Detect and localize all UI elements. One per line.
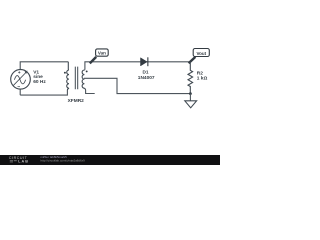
wire: left loop (source to primary) [20,62,68,95]
transformer XFMR2 core [75,67,77,90]
flag Vout box [193,49,209,57]
transformer XFMR2 secondary coil [82,69,85,90]
transformer XFMR2 primary coil [67,62,69,90]
wire: secondary top rail to resistor [85,62,190,70]
svg-text:D1: D1 [143,70,149,75]
svg-text:1N4007: 1N4007 [138,75,155,81]
voltage source V1 circle [11,70,31,90]
svg-text:XFMR2: XFMR2 [68,98,85,104]
svg-text:http://circuitlab.com/c/mjw2a8: http://circuitlab.com/c/mjw2a8d6z9 [41,159,86,163]
wire: center tap return [84,78,190,93]
flag Vout pointer [189,57,196,63]
voltage source V1 arrow [13,73,26,86]
transformer XFMR2 primary dot [64,72,66,74]
diode D1 [141,58,147,66]
svg-text:Vout: Vout [196,51,206,56]
svg-text:1 kΩ: 1 kΩ [197,75,208,81]
resistor R2 [188,62,193,94]
flag Van pointer [90,57,96,64]
voltage source plus sign [18,71,20,73]
flag Van box [96,49,109,56]
watermark footer bar [0,155,220,165]
svg-text:60 Hz: 60 Hz [33,79,46,85]
wire: secondary bottom stub [86,90,95,94]
transformer XFMR2 secondary dot [86,70,88,72]
voltage source minus sign [18,86,21,88]
svg-text:Van: Van [98,51,106,56]
voltage source V1 sine wave [14,76,25,84]
junction node dot [189,92,192,95]
ground [189,94,191,101]
svg-text:LAB: LAB [18,160,29,164]
